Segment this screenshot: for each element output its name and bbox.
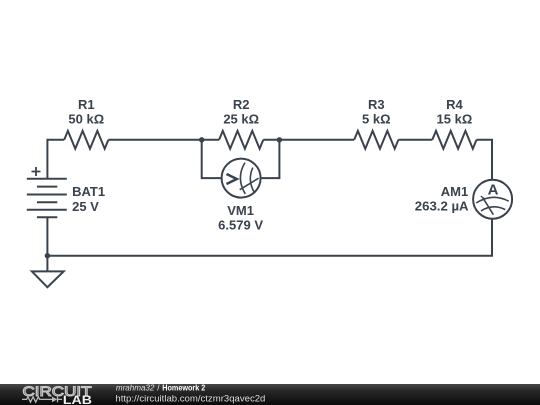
- svg-text:mrahma32: mrahma32: [116, 383, 155, 392]
- resistor R2: [219, 97, 263, 149]
- svg-text:R2: R2: [233, 97, 250, 112]
- wire R4 to ammeter top: [477, 140, 493, 180]
- wire battery - terminal down to ground node: [46, 217, 48, 255]
- svg-text:50 kΩ: 50 kΩ: [68, 112, 104, 127]
- logo resistor-diode glyph: [22, 397, 52, 402]
- svg-text:R3: R3: [368, 97, 385, 112]
- node B junction dot: [277, 137, 282, 142]
- svg-text:15 kΩ: 15 kΩ: [437, 112, 473, 127]
- wire from battery + terminal up and to R1: [47, 140, 64, 179]
- CircuitLab logo: [22, 384, 92, 405]
- svg-text:6.579 V: 6.579 V: [218, 218, 263, 233]
- ammeter AM1: [415, 180, 512, 219]
- svg-text:25 kΩ: 25 kΩ: [223, 112, 259, 127]
- svg-text:A: A: [488, 182, 499, 199]
- svg-text:25 V: 25 V: [72, 199, 99, 214]
- svg-text:VM1: VM1: [227, 203, 254, 218]
- voltmeter VM1: [218, 159, 263, 233]
- resistor R3: [354, 97, 398, 149]
- wire bottom rail to ammeter bottom: [47, 218, 492, 256]
- svg-text:AM1: AM1: [441, 184, 468, 199]
- battery plus sign: [32, 167, 41, 176]
- svg-text:R1: R1: [78, 97, 95, 112]
- svg-text:263.2 µA: 263.2 µA: [415, 198, 469, 213]
- battery BAT1: [27, 167, 67, 217]
- ground node junction dot: [45, 253, 50, 258]
- node A junction dot: [199, 137, 204, 142]
- svg-text:BAT1: BAT1: [72, 184, 105, 199]
- ground: [32, 271, 64, 287]
- svg-text:Homework 2: Homework 2: [162, 383, 205, 392]
- svg-text:5 kΩ: 5 kΩ: [362, 112, 391, 127]
- wire node B down to voltmeter right: [261, 140, 280, 178]
- wire R1 to R2 (through node A): [108, 139, 219, 141]
- footer title text: [115, 383, 265, 403]
- svg-text:LAB: LAB: [63, 395, 92, 405]
- footer bar: [0, 384, 540, 405]
- svg-text:http://circuitlab.com/ctzmr3qa: http://circuitlab.com/ctzmr3qavec2d: [115, 393, 265, 403]
- svg-text:R4: R4: [446, 97, 463, 112]
- wire R2 to R3 (through node B): [263, 139, 354, 141]
- wire R3 to R4: [398, 139, 432, 141]
- wire ground stub: [46, 256, 48, 272]
- wire node A down to voltmeter left: [202, 140, 222, 178]
- resistor R1: [64, 97, 108, 149]
- resistor R4: [432, 97, 476, 149]
